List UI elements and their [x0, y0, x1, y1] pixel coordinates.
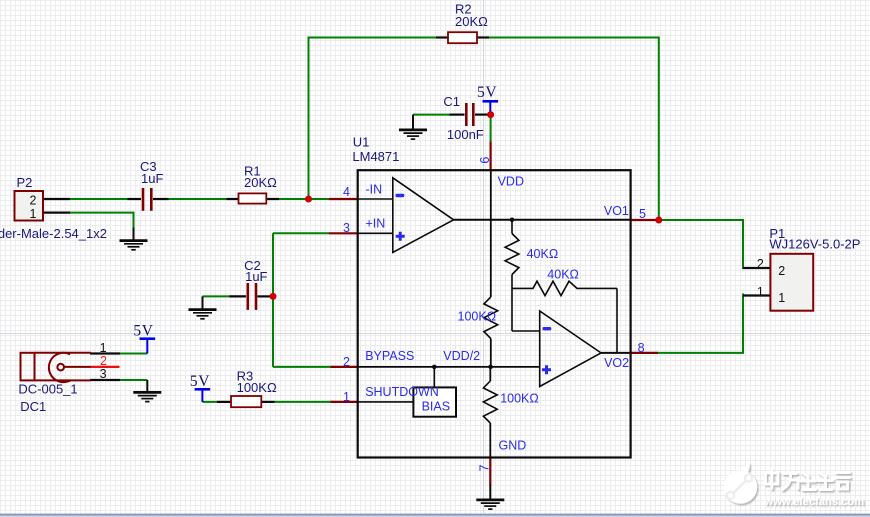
- U1 body box: [358, 170, 631, 457]
- svg-text:2: 2: [757, 257, 764, 271]
- VO1 output line: [454, 219, 631, 221]
- svg-text:40KΩ: 40KΩ: [547, 268, 579, 282]
- connector P1 body: [770, 254, 813, 311]
- 5V flag at R3: [190, 373, 210, 402]
- op-amp U1B triangle: [540, 311, 601, 387]
- wire R1 to junction: [279, 198, 331, 200]
- +IN internal line: [358, 232, 393, 234]
- op1 minus: [396, 194, 405, 197]
- wire 5V junction down to pin6: [490, 115, 492, 142]
- svg-text:SHUTDOWN: SHUTDOWN: [365, 385, 439, 399]
- svg-text:DC-005_1: DC-005_1: [18, 382, 77, 397]
- svg-text:100KΩ: 100KΩ: [237, 380, 277, 395]
- wire BYPASS horizontal: [273, 366, 331, 368]
- svg-text:WJ126V-5.0-2P: WJ126V-5.0-2P: [769, 237, 860, 252]
- svg-text:P2: P2: [17, 175, 33, 190]
- VDD/2 BYPASS rail: [358, 366, 540, 368]
- svg-text:2: 2: [343, 355, 350, 369]
- op2 minus: [543, 327, 552, 330]
- svg-text:6: 6: [478, 157, 492, 164]
- svg-text:5V: 5V: [477, 84, 497, 101]
- axis line horizontal: [0, 333, 870, 335]
- svg-text:4: 4: [343, 185, 350, 199]
- svg-text:+IN: +IN: [366, 216, 386, 230]
- svg-text:3: 3: [343, 221, 350, 235]
- wire R2 to right drop: [488, 37, 659, 39]
- svg-text:Header-Male-2.54_1x2: Header-Male-2.54_1x2: [0, 226, 107, 241]
- wire DC1 pin3 to ground: [120, 379, 148, 381]
- svg-text:3: 3: [100, 367, 107, 381]
- wire vertical C2 to +IN and BYPASS: [272, 233, 274, 367]
- wire junction up to R2 row: [308, 38, 310, 201]
- svg-text:20KΩ: 20KΩ: [455, 14, 488, 29]
- watermark chinese strokes: [766, 471, 850, 490]
- svg-text:VO1: VO1: [604, 204, 629, 218]
- -IN internal line: [358, 198, 393, 200]
- svg-text:100KΩ: 100KΩ: [458, 309, 497, 323]
- svg-text:U1: U1: [353, 135, 370, 150]
- pin 3 stub: [329, 232, 358, 234]
- op2 plus: [542, 365, 551, 374]
- wire right drop down to VO1: [658, 37, 660, 221]
- wire VO1 junction to P1 pin2: [659, 220, 745, 268]
- svg-text:www.elecfans.com: www.elecfans.com: [764, 496, 865, 508]
- pin 5 stub: [631, 219, 659, 221]
- ground pin7: [476, 484, 504, 509]
- svg-text:VDD/2: VDD/2: [443, 349, 480, 363]
- svg-text:C1: C1: [443, 94, 460, 109]
- junction internal VDD/2: [488, 365, 493, 370]
- ground C1: [399, 115, 427, 140]
- wire R2 row left segment: [308, 37, 439, 39]
- DC1 body: [21, 353, 92, 382]
- svg-text:100nF: 100nF: [447, 127, 484, 142]
- wire P2 pin2 to C3: [69, 198, 128, 200]
- pin 1 stub: [331, 401, 359, 403]
- svg-text:BYPASS: BYPASS: [365, 349, 414, 363]
- svg-text:1: 1: [778, 291, 785, 305]
- watermark logo circle: [724, 463, 758, 504]
- U1 internal wires: [358, 170, 631, 457]
- svg-text:2: 2: [30, 194, 37, 208]
- ground P2 pin1: [120, 228, 148, 250]
- svg-text:BIAS: BIAS: [422, 399, 451, 413]
- svg-text:1: 1: [30, 207, 37, 221]
- 5V flag at C1: [477, 84, 498, 113]
- connector P2 body: [15, 191, 44, 221]
- junction internal BIAS: [432, 365, 437, 370]
- svg-text:20KΩ: 20KΩ: [244, 175, 277, 190]
- svg-text:100KΩ: 100KΩ: [500, 391, 539, 405]
- op1 plus: [396, 232, 405, 241]
- bottom blue bar: [0, 514, 870, 516]
- svg-text:2: 2: [778, 264, 785, 278]
- wire +IN horizontal: [273, 232, 330, 234]
- svg-text:1: 1: [343, 390, 350, 404]
- -IN2 line to op-amp2: [512, 330, 540, 332]
- svg-text:40KΩ: 40KΩ: [527, 247, 559, 261]
- VDD internal vertical: [490, 170, 492, 297]
- axis line vertical: [483, 0, 485, 513]
- 40K vertical from VO1: [511, 220, 513, 234]
- svg-text:VO2: VO2: [604, 356, 629, 370]
- junction 5V/C1/pin6: [487, 111, 494, 118]
- wire P1 pin1 down to VO2: [658, 294, 744, 353]
- resistor 100K upper zigzag: [484, 297, 498, 339]
- wire C2 left to ground: [203, 295, 231, 297]
- pin 2 stub: [331, 366, 359, 368]
- DC1 pin2 unconnected: [91, 366, 120, 368]
- wire 5V to R3: [202, 401, 217, 403]
- pin 6 stub: [490, 142, 492, 171]
- svg-text:5V: 5V: [190, 373, 210, 390]
- wire C1 left to ground: [413, 114, 451, 116]
- junction R1/R2 node: [305, 196, 312, 203]
- svg-text:8: 8: [638, 341, 645, 355]
- BIAS vertical link: [433, 367, 435, 388]
- svg-text:VDD: VDD: [498, 175, 524, 189]
- DC1 pin leads: [90, 352, 120, 354]
- op-amp U1A triangle: [393, 178, 454, 253]
- P2 pin leads: [43, 199, 70, 213]
- pin 7 stub: [489, 458, 491, 485]
- wire R3 to pin1: [274, 401, 331, 403]
- SHUTDOWN internal line: [358, 401, 413, 403]
- svg-text:DC1: DC1: [20, 399, 46, 414]
- pin 4 stub: [329, 198, 358, 200]
- svg-text:5: 5: [639, 207, 646, 221]
- pin 8 stub: [631, 352, 658, 354]
- junction VO1 node: [655, 217, 662, 224]
- svg-text:LM4871: LM4871: [352, 149, 399, 164]
- 40K horizontal feedback: [512, 281, 617, 295]
- wire DC1 pin1 to 5V: [120, 353, 148, 355]
- ground DC1 pin3: [133, 380, 161, 402]
- VO2 output line: [601, 352, 631, 354]
- svg-text:1: 1: [757, 285, 764, 299]
- P1 pin leads: [743, 267, 771, 269]
- svg-text:GND: GND: [499, 439, 527, 453]
- junction C2 node: [270, 293, 277, 300]
- resistor 100K lower zigzag: [489, 367, 491, 381]
- svg-text:5V: 5V: [133, 323, 153, 340]
- wire C3 to R1: [168, 198, 227, 200]
- svg-text:1uF: 1uF: [141, 171, 163, 186]
- svg-text:1: 1: [100, 341, 107, 355]
- 5V flag at DC1 pin1: [133, 323, 155, 354]
- ground C2: [189, 296, 217, 318]
- svg-text:7: 7: [478, 465, 492, 472]
- svg-text:1uF: 1uF: [245, 269, 267, 284]
- svg-text:-IN: -IN: [366, 183, 383, 197]
- BIAS box: [413, 387, 456, 416]
- junction internal VO1/40K: [510, 218, 515, 223]
- wire P2 pin1: [69, 213, 134, 229]
